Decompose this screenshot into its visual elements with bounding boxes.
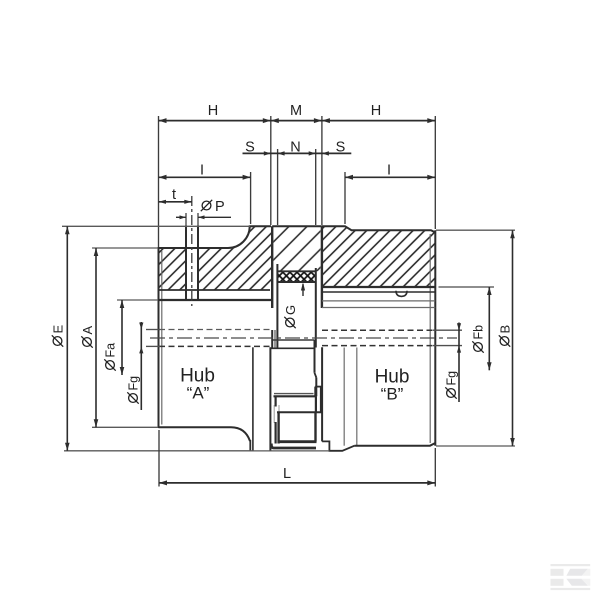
svg-text:Fg: Fg: [445, 371, 459, 386]
jaw gap top silhouette line: [270, 347, 315, 349]
S N S dimension line: [243, 152, 352, 154]
ext line B bottom: [436, 445, 515, 447]
spider hub bottom line: [273, 339, 315, 341]
ext line hub A flange face up: [270, 116, 272, 225]
spider crosshatch bottom edge: [277, 281, 315, 283]
hub B keyway line: [322, 286, 435, 288]
ext line Fa top: [117, 299, 158, 301]
jaw tooth top bar top: [274, 395, 317, 397]
hub B right face chamfer line: [429, 234, 431, 443]
ext stub Fg right bottom: [433, 345, 462, 347]
svg-text:Fb: Fb: [472, 325, 486, 340]
svg-text:L: L: [283, 466, 291, 482]
watermark K logo: [551, 564, 591, 590]
jaw box left vertical: [277, 412, 279, 443]
dimension system: [62, 116, 515, 487]
ext line A bottom: [92, 426, 158, 428]
pilot bore hidden line hub B bottom: [322, 345, 434, 347]
hub A flange face bottom verticals: [249, 440, 251, 451]
ext line hub B right face up: [434, 116, 436, 229]
jaw slot side lines: [273, 405, 275, 423]
pilot bore hidden line hub B top: [322, 329, 434, 331]
t dimension line: [159, 201, 192, 203]
spider hub ØG left wall: [276, 264, 278, 349]
svg-text:G: G: [283, 305, 298, 315]
vertical diameter dimension lines: [65, 226, 515, 450]
jaw tooth top bar left vertical lower: [275, 422, 277, 444]
label ØE: [51, 325, 66, 347]
jaw step: right notch top: [315, 386, 322, 388]
MAIN DRAWING: [159, 213, 436, 451]
hidden and center lines: [150, 196, 457, 346]
ext line I-left at flange: [250, 172, 252, 224]
label ØB: [498, 325, 513, 347]
text labels horizontal: [172, 103, 409, 482]
svg-text:P: P: [215, 199, 225, 215]
hub B left face lower part: [321, 347, 323, 441]
ext line L left: [158, 430, 160, 487]
svg-text:S: S: [336, 140, 346, 156]
label ØG: [283, 305, 298, 328]
hub B bottom edge: [355, 443, 436, 446]
hub B bore line: [322, 291, 435, 293]
hub A hatched section: [159, 226, 272, 290]
main center line: [150, 337, 457, 339]
svg-text:N: N: [290, 140, 300, 156]
ØFb dim line: [488, 287, 490, 370]
jaw bottom silhouette bar: [271, 444, 316, 449]
jaw box right vertical: [314, 412, 316, 441]
svg-text:Fg: Fg: [127, 376, 141, 391]
ØB dim line: [512, 230, 514, 446]
screw hole extension lines above: [185, 213, 187, 226]
H M H dimension line: [159, 120, 436, 122]
ext line spider right face up: [315, 149, 317, 225]
hub B bore chamfer lines: [322, 300, 435, 302]
svg-text:H: H: [371, 103, 381, 119]
hub A left face chamfer line: [161, 251, 163, 425]
label ØA: [80, 326, 95, 348]
ext line B top: [436, 229, 515, 231]
jaw step: right notch verticals: [314, 387, 316, 397]
hub B right face: [434, 230, 436, 446]
ext line A top: [92, 247, 158, 249]
ext stub Fg left bottom: [146, 345, 160, 347]
horizontal dimension lines with arrows: [159, 118, 436, 485]
ØA dim line: [95, 248, 97, 427]
svg-text:“B”: “B”: [381, 385, 404, 404]
ext line E top: [62, 225, 250, 227]
ØE dim line: [66, 226, 68, 450]
svg-text:“A”: “A”: [187, 384, 210, 403]
svg-text:H: H: [208, 103, 218, 119]
hub A outline top: [159, 226, 272, 248]
svg-text:B: B: [498, 325, 513, 334]
ext line Fb top: [439, 286, 495, 288]
jaw step mid line: [277, 411, 322, 413]
elastomer spider crosshatch: [277, 271, 315, 282]
hub B left face: [321, 226, 323, 308]
L dimension line: [159, 482, 435, 484]
hub A right face (flange face): [271, 226, 273, 308]
svg-text:I: I: [200, 163, 204, 179]
ext line I-right at flange: [344, 172, 346, 224]
spider hub ØG right wall: [315, 268, 317, 348]
jaw block bottom edge: [277, 270, 315, 272]
ext line hub B flange face up: [321, 116, 323, 225]
svg-text:t: t: [172, 187, 176, 203]
ØP leader line: [198, 216, 231, 218]
jaw tooth top bar right vertical: [315, 396, 317, 412]
ext line hub A left face up: [158, 116, 160, 247]
hub B flange-barrel lines bottom half: [343, 348, 345, 446]
spider hub lower right wall: [314, 340, 316, 373]
jaw tooth top bar left vertical upper: [275, 396, 277, 406]
hub B outline top: [322, 226, 435, 232]
hub A bore line: [159, 299, 272, 301]
ØFg left dim line: [140, 322, 142, 410]
rotated diameter labels: [51, 305, 513, 404]
ØFa dim line: [121, 300, 123, 375]
pilot bore hidden line hub A top: [159, 329, 270, 331]
label ØFg right: [445, 371, 459, 399]
ext line L right: [434, 448, 436, 487]
jaw block hatched section: [274, 226, 321, 271]
ext stub Fg left top: [146, 329, 160, 331]
svg-text:S: S: [245, 140, 255, 156]
svg-text:I: I: [387, 163, 391, 179]
hub B hatched section: [322, 226, 435, 287]
hub B flange bottom: [322, 441, 354, 450]
screw hole ØP walls: [185, 226, 187, 301]
jaw box bottom bar: [278, 440, 317, 443]
label ØFa: [104, 343, 118, 371]
jaw gap left vertical: [269, 347, 271, 451]
ØFg right dim line: [458, 323, 460, 403]
pilot bore hidden line hub A bottom: [159, 345, 270, 347]
I left dimension line: [159, 176, 251, 178]
hub A left face: [158, 247, 160, 428]
svg-text:E: E: [51, 325, 66, 334]
ext line spider left face up: [277, 149, 279, 225]
ØG arrow: [302, 284, 304, 296]
lube hole ellipse on hub B: [396, 291, 407, 297]
hub A barrel bottom: [159, 427, 251, 441]
spider hub lower bottom: [274, 393, 314, 395]
svg-text:Fa: Fa: [104, 343, 118, 358]
gray base line under jaws: [253, 450, 329, 452]
svg-text:M: M: [290, 103, 302, 119]
label ØFb: [472, 325, 486, 353]
ext line E bottom: [64, 450, 253, 452]
jaw block top edge: [272, 225, 322, 227]
label ØFg left: [127, 376, 141, 404]
I right dimension line: [345, 176, 435, 178]
hole ØP center line: [191, 196, 193, 306]
svg-text:A: A: [80, 326, 95, 335]
ext stub Fg right top: [433, 329, 462, 331]
label ØP: [201, 200, 212, 211]
hub A keyway line: [159, 289, 271, 291]
